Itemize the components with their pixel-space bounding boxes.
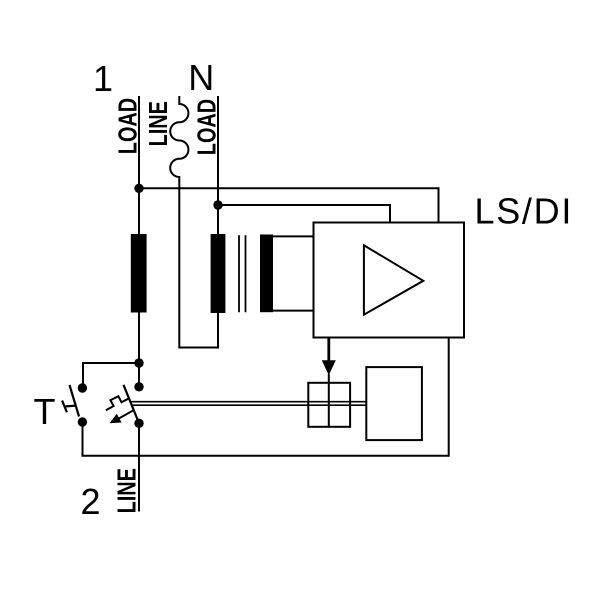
test resistor wavy wire (LINE N) (170, 96, 218, 348)
svg-text:LS/DI: LS/DI (475, 191, 574, 232)
winding W3 secondary bar (260, 235, 273, 313)
winding W1 pole-1 primary bar (131, 234, 147, 313)
main contact lower dot (134, 419, 143, 428)
wire secondary to amplifier lower (273, 310, 314, 312)
amplifier supply return wire to bottom rail (83, 338, 449, 456)
svg-text:LINE: LINE (112, 468, 141, 513)
test button actuator crossbar (62, 401, 67, 413)
main contact trip arrowhead (110, 414, 122, 424)
test button branch wire (83, 363, 139, 386)
breaker mechanism box (366, 367, 422, 440)
svg-text:N: N (188, 57, 214, 98)
trip wire through relay square (328, 374, 330, 427)
amplifier triangle symbol (364, 245, 423, 314)
winding W2 pole-N primary bar (211, 234, 226, 313)
mechanical linkage double line (132, 402, 367, 406)
main contact blade (124, 385, 138, 420)
test button actuator stem (65, 405, 77, 408)
main contact trip arrow line (117, 410, 134, 420)
node A junction dot (134, 184, 143, 193)
svg-text:LOAD: LOAD (113, 98, 142, 154)
trip arrowhead (322, 360, 336, 375)
wire pole-1 vertical (138, 96, 140, 386)
node C junction dot (134, 358, 143, 367)
svg-text:LINE: LINE (144, 101, 173, 146)
trip output wire with arrow (327, 338, 330, 363)
node B junction dot (213, 200, 222, 209)
main contact upper dot (134, 382, 143, 391)
wire secondary to amplifier upper (273, 235, 314, 237)
wire pole-N vertical (217, 96, 219, 234)
wire terminal 2 LINE (138, 423, 140, 511)
test button blade (70, 385, 80, 417)
wire horizontal from node A to amplifier top (139, 188, 439, 222)
svg-text:1: 1 (93, 58, 113, 99)
svg-text:2: 2 (81, 481, 101, 522)
amplifier box LS/DI (314, 223, 465, 338)
test button lower contact dot (78, 417, 87, 426)
trip relay square (308, 383, 350, 427)
transformer core lines (239, 235, 246, 312)
main contact latch zigzag (106, 396, 129, 410)
test button upper contact dot (78, 383, 87, 392)
svg-text:T: T (34, 391, 56, 432)
svg-text:LOAD: LOAD (192, 99, 221, 155)
wire horizontal from node B to amplifier top (218, 205, 390, 223)
